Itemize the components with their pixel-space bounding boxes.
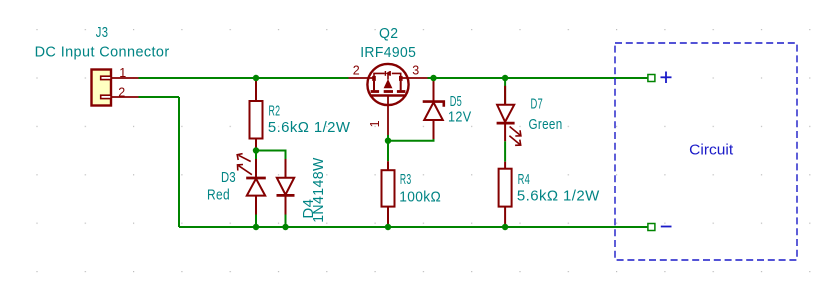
svg-text:Green: Green bbox=[529, 117, 563, 133]
channel dashes bbox=[371, 90, 380, 93]
svg-text:1: 1 bbox=[368, 120, 382, 127]
pin 2 lead bbox=[349, 77, 375, 79]
circuit dashed box bbox=[615, 43, 797, 260]
svg-text:1: 1 bbox=[119, 66, 126, 80]
svg-text:5.6kΩ 1/2W: 5.6kΩ 1/2W bbox=[268, 120, 351, 136]
svg-text:3: 3 bbox=[412, 64, 419, 78]
resistor R2 bbox=[250, 78, 263, 151]
resistor R4 bbox=[499, 162, 512, 227]
svg-text:100kΩ: 100kΩ bbox=[399, 189, 441, 205]
gate bar bbox=[371, 94, 404, 96]
junction R4 bottom bbox=[502, 224, 508, 230]
top staple bbox=[374, 73, 385, 78]
junction R3 bottom bbox=[385, 224, 391, 230]
svg-text:R4: R4 bbox=[518, 172, 531, 188]
substrate arrow bbox=[387, 73, 389, 79]
terminal + square bbox=[648, 75, 655, 82]
wire left vertical drop bbox=[178, 97, 180, 227]
svg-text:5.6kΩ 1/2W: 5.6kΩ 1/2W bbox=[517, 189, 600, 205]
svg-text:2: 2 bbox=[353, 64, 360, 78]
junction R2 bottom node bbox=[253, 147, 259, 153]
svg-text:R2: R2 bbox=[269, 104, 281, 120]
LED D3 bbox=[246, 159, 266, 215]
svg-text:R3: R3 bbox=[400, 172, 412, 188]
junction D7 top bbox=[502, 75, 508, 81]
svg-text:IRF4905: IRF4905 bbox=[360, 45, 416, 61]
svg-text:DC Input Connector: DC Input Connector bbox=[35, 45, 170, 61]
gate lead pin 1 bbox=[387, 96, 389, 136]
diode D4 bbox=[277, 159, 295, 215]
svg-text:1N4148W: 1N4148W bbox=[311, 157, 327, 223]
junction R2 top bbox=[253, 75, 259, 81]
svg-text:J3: J3 bbox=[96, 25, 109, 41]
transistor Q2 IRF4905 bbox=[349, 64, 428, 135]
wire J3 pin2 horizontal bbox=[139, 96, 180, 98]
wire R2 bottom to D4 top bbox=[256, 151, 286, 160]
pin 3 lead bbox=[401, 77, 428, 79]
left plate bbox=[373, 81, 375, 91]
wire gate to D5 bbox=[388, 135, 434, 141]
svg-text:2: 2 bbox=[118, 85, 125, 99]
node - symbol bbox=[661, 226, 672, 228]
node + symbol bbox=[661, 72, 672, 84]
svg-text:D3: D3 bbox=[221, 170, 236, 186]
wire top rail bbox=[139, 77, 349, 79]
junction D4 bottom bbox=[282, 224, 288, 230]
connector J3 bbox=[92, 70, 112, 106]
wire D3 top stub bbox=[255, 151, 257, 160]
wire D7 to R4 bbox=[504, 141, 506, 161]
J3 pin 1 line bbox=[112, 77, 139, 79]
terminal - square bbox=[648, 224, 655, 231]
junction D3 bottom bbox=[253, 224, 259, 230]
svg-text:Q2: Q2 bbox=[379, 26, 399, 42]
zener D5 bbox=[423, 81, 444, 140]
resistor R3 bbox=[382, 141, 395, 227]
svg-text:12V: 12V bbox=[448, 110, 472, 126]
D7 led arrows bbox=[509, 127, 521, 146]
LED D7 bbox=[497, 78, 515, 141]
J3 pin 2 line bbox=[112, 96, 139, 98]
svg-text:D7: D7 bbox=[531, 97, 544, 113]
tiny body diode bbox=[386, 71, 390, 76]
svg-text:Circuit: Circuit bbox=[689, 143, 733, 159]
svg-text:D5: D5 bbox=[450, 94, 462, 110]
wire bottom rail bbox=[179, 226, 647, 228]
svg-text:Red: Red bbox=[207, 188, 230, 204]
wire top rail right of Q2 bbox=[428, 77, 648, 79]
contacts bbox=[372, 76, 376, 81]
junction gate node bbox=[385, 138, 391, 144]
right plate bbox=[400, 81, 402, 91]
junction D5 top bbox=[430, 75, 436, 81]
D3 led arrows bbox=[237, 154, 252, 175]
